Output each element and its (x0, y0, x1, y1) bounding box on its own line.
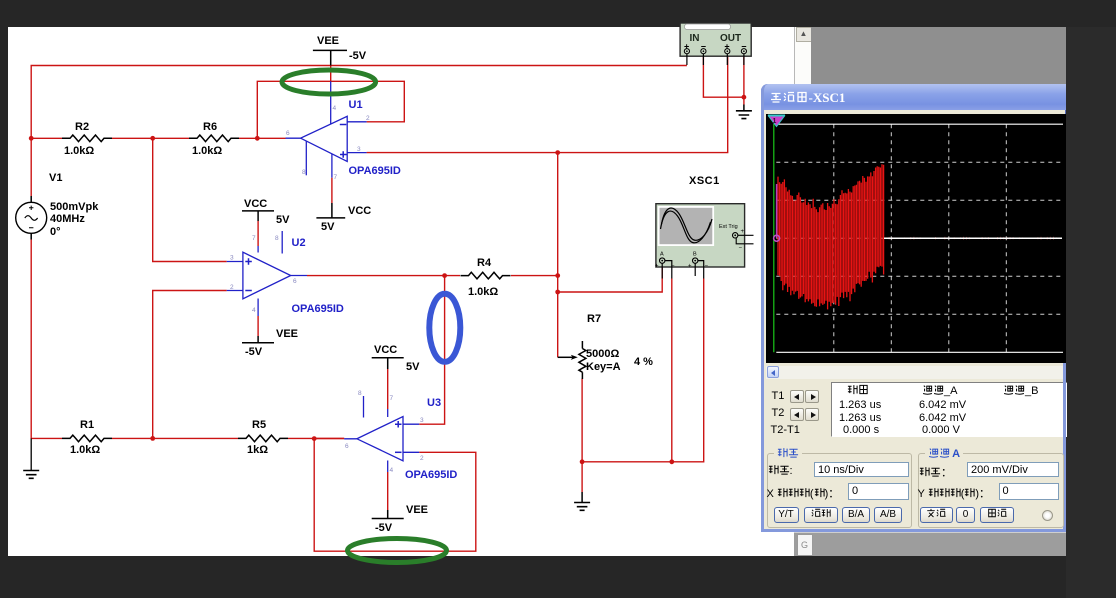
svg-text:-5V: -5V (375, 522, 393, 534)
channel A buttons (920, 507, 953, 523)
op-amp U1 OPA695ID (286, 50, 401, 218)
wire R2-R6 (112, 137, 189, 139)
wire R2 left (31, 137, 62, 139)
VEE supply below U2 (242, 342, 274, 344)
wire R1 to R5 (112, 437, 238, 439)
wire IN- to OUT- (703, 57, 744, 98)
svg-text:7: 7 (252, 235, 256, 242)
svg-text:7: 7 (390, 395, 394, 402)
svg-text:6: 6 (293, 278, 297, 285)
svg-text:7: 7 (334, 174, 338, 181)
svg-text:+: + (655, 264, 659, 270)
radio indicator (1042, 510, 1053, 521)
wire R7 bottom (581, 379, 583, 493)
svg-text:5V: 5V (406, 361, 420, 373)
svg-text:2: 2 (420, 455, 424, 462)
wire to scope A (558, 262, 663, 292)
resistor R6 1.0k (189, 135, 239, 142)
ground top right (743, 105, 745, 111)
svg-text:+: + (741, 229, 745, 235)
wire R4 junction down to U3 plus (419, 276, 444, 425)
oscilloscope icon XSC1 (655, 175, 754, 279)
dark area right of app (1066, 27, 1116, 598)
resistor R2 1.0k (62, 135, 112, 142)
svg-text:A: A (660, 252, 664, 258)
svg-text:6: 6 (286, 130, 290, 137)
svg-text:8: 8 (358, 390, 362, 397)
svg-text:1kΩ: 1kΩ (247, 444, 268, 456)
source V1 (30, 196, 32, 240)
svg-text:0°: 0° (50, 226, 61, 238)
wire scope B- down and across (582, 279, 704, 462)
svg-text:OPA695ID: OPA695ID (349, 165, 401, 177)
svg-text:4: 4 (390, 467, 394, 474)
svg-text:4 %: 4 % (634, 356, 653, 368)
wire OUT- to ground (743, 57, 745, 105)
svg-text:U3: U3 (427, 397, 441, 409)
annotation green ellipse top (282, 70, 376, 94)
cursor arrow buttons (790, 390, 804, 403)
svg-text:6: 6 (345, 443, 349, 450)
resistor R4 1.0k (461, 272, 511, 279)
svg-text:1.0kΩ: 1.0kΩ (192, 145, 222, 157)
group box timebase (767, 453, 912, 528)
potentiometer R7 5000 ohm (581, 341, 583, 349)
wire U1 feedback (257, 81, 404, 138)
connector block IN/OUT (680, 23, 751, 65)
wire R5 to U3 out junction (288, 437, 344, 439)
T1 T2 labels (772, 390, 785, 402)
svg-text:VEE: VEE (317, 35, 339, 47)
svg-text:VCC: VCC (374, 344, 397, 356)
svg-text:1.0kΩ: 1.0kΩ (70, 444, 100, 456)
canvas vertical scrollbar (794, 27, 811, 85)
op-amp U2 OPA695ID (227, 211, 344, 343)
wire U2 output to R4 (307, 275, 460, 277)
resistor R1 1.0k (62, 435, 112, 442)
svg-text:3: 3 (420, 417, 424, 424)
ground left (30, 438, 32, 470)
wire U1 plus row to OUT+ (367, 57, 728, 153)
svg-text:VEE: VEE (406, 504, 428, 516)
wire node column x557 (557, 153, 559, 358)
annotation blue ellipse (429, 294, 460, 362)
svg-text:3: 3 (357, 146, 361, 153)
sheet canvas (8, 27, 794, 556)
svg-text:R6: R6 (203, 121, 217, 133)
svg-text:8: 8 (275, 235, 279, 242)
svg-text:1.0kΩ: 1.0kΩ (468, 286, 498, 298)
wire top rail to IN+ (31, 66, 687, 139)
svg-text:1.0kΩ: 1.0kΩ (64, 145, 94, 157)
svg-text:XSC1: XSC1 (689, 175, 720, 187)
svg-text:Key=A: Key=A (586, 361, 621, 373)
svg-text:2: 2 (366, 115, 370, 122)
svg-text:R5: R5 (252, 419, 266, 431)
svg-text:-5V: -5V (245, 346, 263, 358)
resistor R5 1k (238, 435, 288, 442)
svg-text:+: + (688, 264, 692, 270)
annotation green ellipse bottom (348, 539, 447, 563)
svg-text:8: 8 (302, 169, 306, 176)
wire U2 minus input (153, 291, 227, 439)
node junctions (29, 136, 34, 141)
workspace grey bottom with G tab (794, 532, 1066, 556)
svg-text:R2: R2 (75, 121, 89, 133)
VCC supply above U3 (372, 357, 404, 359)
svg-text:VCC: VCC (348, 205, 371, 217)
ground under R7 (581, 492, 583, 503)
svg-text:4: 4 (252, 307, 256, 314)
scale label (768, 464, 793, 477)
oscilloscope window 示波器-XSC1 (761, 84, 1066, 532)
measurement readouts (831, 382, 1067, 437)
svg-text:R4: R4 (477, 257, 492, 269)
Y position label (918, 485, 991, 501)
wire U2 plus input (153, 138, 227, 261)
timebase scale field (814, 462, 909, 478)
VCC supply under U1 (316, 217, 345, 219)
svg-text:R7: R7 (587, 313, 601, 325)
op-amp U3 OPA695ID (344, 358, 457, 519)
svg-text:-5V: -5V (349, 50, 367, 62)
svg-text:OPA695ID: OPA695ID (292, 303, 344, 315)
VCC supply above U2 (242, 210, 274, 212)
table headers (847, 384, 869, 397)
svg-text:−: − (705, 264, 709, 270)
wire V1 top (30, 138, 32, 196)
timebase buttons (774, 507, 799, 523)
svg-text:VEE: VEE (276, 328, 298, 340)
svg-text:3: 3 (230, 255, 234, 262)
wire R4 right (511, 275, 558, 277)
wire V1 bottom to R1 row (31, 240, 62, 439)
svg-text:40MHz: 40MHz (50, 213, 85, 225)
svg-text:V1: V1 (49, 172, 62, 184)
svg-text:IN: IN (690, 33, 700, 44)
svg-text:OPA695ID: OPA695ID (405, 469, 457, 481)
wire U3 feedback loop (314, 439, 476, 552)
workspace grey top right (811, 27, 1066, 85)
svg-text:5000Ω: 5000Ω (586, 348, 619, 360)
svg-text:R1: R1 (80, 419, 94, 431)
svg-text:4: 4 (333, 105, 337, 112)
wire R6 to U1 out (239, 137, 286, 139)
svg-text:5V: 5V (276, 214, 290, 226)
svg-text:OUT: OUT (720, 33, 741, 44)
svg-text:−: − (739, 246, 743, 252)
svg-text:500mVpk: 500mVpk (50, 201, 99, 213)
group box channel A (918, 453, 1064, 528)
svg-text:U1: U1 (349, 99, 363, 111)
X position field (848, 483, 909, 500)
svg-text:VCC: VCC (244, 198, 267, 210)
svg-text:B: B (693, 252, 697, 258)
svg-text:5V: 5V (321, 221, 335, 233)
svg-text:2: 2 (230, 284, 234, 291)
VEE supply below U3 (372, 518, 404, 520)
X position label (767, 485, 840, 501)
scope screen (766, 114, 1066, 363)
VEE supply top (313, 49, 347, 51)
wire scope A- down (671, 279, 673, 462)
channel A scale (919, 464, 952, 480)
svg-text:U2: U2 (292, 237, 306, 249)
svg-text:Ext Trig: Ext Trig (719, 224, 738, 230)
table values (839, 399, 881, 411)
